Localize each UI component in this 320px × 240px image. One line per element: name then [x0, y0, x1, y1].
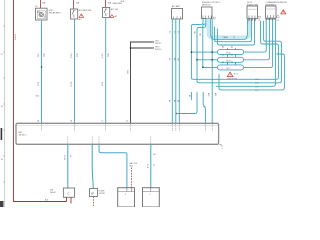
svg-text:L 14: L 14: [255, 79, 258, 81]
net arrow B: [153, 47, 155, 49]
stub wire tail V4: [190, 92, 192, 100]
sheet zone marks: [1, 128, 3, 140]
svg-text:SP: SP: [91, 191, 95, 195]
wire bus line 3: [217, 19, 254, 45]
loop DL3 left line: [202, 67, 204, 69]
connector CC: [63, 188, 74, 197]
data link loop DL1: [218, 46, 244, 57]
svg-text:A/C AMP: A/C AMP: [172, 5, 181, 8]
splice SP: [90, 189, 98, 197]
svg-text:0.85 R: 0.85 R: [14, 34, 16, 40]
svg-text:FILTER: FILTER: [99, 193, 106, 195]
CAN bus highlighted wire: [209, 19, 250, 38]
connector symbol near C5: [213, 17, 215, 19]
module C7: [266, 6, 277, 18]
wire bus line 2: [215, 19, 252, 42]
wire junction box to relay box E: [150, 144, 152, 187]
svg-text:A3: A3: [168, 100, 171, 102]
svg-text:a: a: [222, 148, 223, 150]
loop DL1 left line: [191, 51, 217, 53]
wire C4 pin3: [178, 19, 180, 124]
gateway module C6: [247, 6, 258, 19]
svg-text:0.5 W: 0.5 W: [63, 155, 65, 160]
svg-text:A5: A5: [188, 95, 191, 97]
wire from switch SW1 to junction box: [74, 19, 76, 124]
svg-text:A7: A7: [173, 100, 176, 102]
switch SW1: [71, 9, 78, 19]
svg-text:W-B 20: W-B 20: [155, 49, 161, 51]
warning triangle W3: [227, 72, 238, 80]
svg-text:0.5 G: 0.5 G: [70, 54, 72, 59]
connector symbol bottom right of junction block: [220, 144, 223, 147]
svg-text:A21: A21: [43, 54, 46, 57]
svg-text:1: 1: [248, 22, 249, 24]
component box E: [143, 188, 160, 207]
net arrow A: [153, 41, 155, 43]
svg-text:L 15: L 15: [255, 83, 258, 85]
svg-text:MODULE: MODULE: [202, 5, 211, 7]
svg-text:ASSEMBLY: ASSEMBLY: [266, 3, 277, 6]
sheet border ruler: [3, 0, 5, 207]
warning triangle W2: [110, 15, 117, 19]
svg-text:B6: B6: [231, 54, 233, 56]
dashed red wire: [131, 168, 133, 188]
svg-text:7: 7: [254, 22, 255, 24]
pin stubs inside junction block: [42, 124, 213, 144]
svg-text:RELAY ASSY: RELAY ASSY: [49, 11, 62, 14]
switch SW2: [103, 8, 110, 18]
svg-text:0.5 L: 0.5 L: [37, 82, 39, 86]
svg-text:0.5 Y: 0.5 Y: [101, 82, 103, 87]
wire C4 pin1: [171, 19, 173, 124]
svg-text:4: 4: [125, 194, 126, 196]
svg-text:0.5: 0.5: [168, 31, 170, 34]
svg-text:L 16: L 16: [255, 87, 258, 89]
svg-text:SHIELDED: SHIELDED: [113, 3, 123, 5]
svg-text:W-B 22: W-B 22: [155, 43, 161, 45]
wire C5 pin1 elbow to left drop: [191, 19, 203, 78]
svg-text:0.5 L: 0.5 L: [37, 54, 39, 58]
svg-text:C4: C4: [222, 62, 224, 64]
svg-text:CANH: CANH: [223, 36, 229, 39]
svg-text:D4: D4: [277, 20, 279, 22]
data link loop DL2: [218, 54, 244, 64]
component box D: [118, 188, 135, 207]
stub wire into junction box A: [179, 92, 198, 114]
svg-text:A15: A15: [107, 54, 110, 57]
warning triangle W4: [281, 10, 286, 14]
svg-text:A13: A13: [76, 54, 79, 57]
wire C5 pin2 elbow to left drop: [197, 19, 206, 81]
svg-text:L 17: L 17: [255, 90, 258, 92]
svg-text:A9: A9: [176, 100, 179, 102]
pin squares C6: [248, 19, 255, 21]
bottom mesh wire H1: [191, 21, 278, 80]
connector symbol near C6: [258, 16, 260, 18]
svg-text:A 5: A 5: [79, 18, 82, 21]
loop DL1 right line to C7: [244, 18, 267, 52]
svg-text:B 12: B 12: [234, 74, 238, 76]
svg-text:A6: A6: [115, 15, 117, 18]
wire from switch SW2 to junction box: [105, 18, 107, 124]
dashed red stub below SP: [93, 197, 95, 207]
svg-text:C6: C6: [231, 62, 233, 64]
warning triangle W1: [79, 14, 84, 21]
svg-text:W-B →: W-B →: [121, 1, 127, 3]
connector C4: [172, 9, 183, 20]
svg-text:C9: C9: [258, 20, 260, 22]
loop DL2 left line: [197, 59, 218, 61]
wire C4 pin2: [175, 19, 177, 124]
loop DL2 right line to C7: [244, 18, 270, 60]
ECU connector C5: [202, 7, 213, 19]
loop DL3 right line to C7: [244, 18, 273, 67]
svg-text:0.5: 0.5: [173, 31, 175, 34]
wire junction box to splice SP with branch: [99, 144, 127, 187]
svg-text:J/C C: J/C C: [226, 68, 231, 70]
twisted wire to splice SP: [92, 144, 93, 188]
svg-text:A/C SW: A/C SW: [111, 8, 118, 11]
svg-text:A6: A6: [231, 46, 233, 49]
svg-text:A29: A29: [214, 93, 217, 96]
svg-text:(DATA LINK): (DATA LINK): [247, 3, 259, 6]
wire junction box to connector CC: [67, 144, 69, 188]
svg-text:J/B NO.1: J/B NO.1: [19, 134, 28, 136]
ground branch wire 2 (black): [131, 47, 153, 49]
fuse feed F3: [105, 0, 107, 8]
svg-text:0.5 G: 0.5 G: [70, 82, 72, 87]
wire C5 pin4 drop to junction box: [211, 19, 213, 124]
pin squares C7: [267, 18, 274, 20]
data link loop DL3: [218, 62, 244, 70]
svg-text:A4: A4: [222, 46, 224, 49]
ground branch wire (black): [131, 42, 153, 124]
svg-text:2: 2: [150, 194, 151, 196]
wire to loop C drop: [203, 24, 218, 67]
bottom mesh wire H3: [216, 18, 275, 86]
red stub from CC pin2: [70, 197, 72, 203]
connector symbol near C7: [277, 16, 279, 18]
red power rail: [13, 0, 66, 202]
junction block box: [16, 123, 219, 144]
svg-text:0.5: 0.5: [176, 31, 178, 34]
fuse feed F2: [73, 0, 75, 9]
svg-text:B4: B4: [222, 54, 224, 56]
svg-text:A30: A30: [207, 93, 210, 96]
svg-text:0.5 Y: 0.5 Y: [101, 54, 103, 59]
fuse feed F1: [40, 0, 42, 8]
junction J2: [191, 51, 193, 53]
stub wire into junction box B: [203, 92, 205, 124]
junction J1: [130, 47, 132, 49]
svg-text:1E 2: 1E 2: [153, 154, 157, 156]
bottom mesh wire H2: [197, 21, 281, 83]
red stub from CC pin1: [66, 197, 68, 201]
wire from relay R1 to junction box: [41, 20, 43, 124]
svg-text:BLOWER SW: BLOWER SW: [79, 10, 92, 12]
bottom mesh wire H4: [219, 54, 284, 90]
svg-text:RELAY: RELAY: [50, 191, 57, 194]
